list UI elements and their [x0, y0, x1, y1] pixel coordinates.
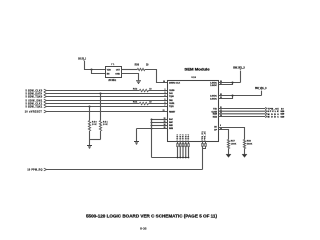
svg-text:5 SDW_DM1: 5 SDW_DM1	[26, 100, 43, 102]
svg-text:5DD4: 5DD4	[187, 134, 190, 140]
svg-text:5 SDW_TQK0: 5 SDW_TQK0	[26, 96, 43, 98]
wire MOD0	[219, 113, 285, 116]
svg-text:PPM_AK: PPM_AK	[204, 131, 207, 141]
ground pins bus (4 pins)	[137, 119, 168, 158]
bottom inside rotated pin labels	[177, 131, 206, 141]
svg-text:U20: U20	[191, 77, 196, 79]
bus line 5 SDW_CLK1	[26, 102, 168, 105]
ground (SM pins)	[134, 129, 139, 145]
bus line 4 SDW_DM	[26, 99, 168, 102]
svg-text:BW_VDL_3: BW_VDL_3	[233, 67, 245, 70]
svg-text:16: 16	[163, 81, 165, 83]
wire SPCLK	[219, 110, 285, 113]
svg-text:3: 3	[165, 92, 166, 94]
svg-text:10K: 10K	[103, 124, 108, 126]
svg-text:3.3VDC: 3.3VDC	[210, 95, 217, 97]
svg-text:RESET: RESET	[169, 111, 176, 113]
svg-text:5DD2: 5DD2	[183, 134, 185, 140]
svg-text:SEM Module: SEM Module	[184, 67, 209, 71]
wire 3.3VDC pair	[219, 91, 262, 99]
svg-text:MOD0: MOD0	[268, 114, 280, 116]
svg-text:20 MHz: 20 MHz	[108, 80, 117, 82]
wire EN branch	[92, 70, 106, 74]
svg-text:10: 10	[281, 108, 284, 110]
svg-text:9: 9	[220, 125, 221, 127]
pin numbers right column	[220, 81, 222, 130]
svg-text:5MD: 5MD	[169, 125, 174, 127]
inside labels left column	[169, 83, 181, 131]
ground (oscillator)	[122, 74, 142, 84]
svg-text:R56: R56	[135, 65, 140, 67]
svg-text:T5D: T5D	[213, 108, 218, 110]
pin numbers left column	[164, 89, 166, 129]
svg-text:8-10: 8-10	[281, 116, 285, 118]
svg-text:MOD1: MOD1	[268, 117, 280, 119]
svg-text:6: 6	[165, 102, 166, 104]
svg-text:5 SDW_CLK1: 5 SDW_CLK1	[26, 103, 43, 105]
svg-text:3.3VDC: 3.3VDC	[210, 98, 217, 100]
net BW_VDL_3 (right upper)	[233, 67, 245, 71]
svg-text:20MHz CLK: 20MHz CLK	[169, 83, 181, 85]
net BW_VDL_3 (top left)	[78, 56, 86, 61]
svg-text:5 SDW_TQK1: 5 SDW_TQK1	[26, 106, 43, 108]
svg-text:CLK51: CLK51	[169, 103, 175, 105]
wire join	[90, 139, 101, 141]
net BW_VDL_3 (right lower)	[255, 87, 267, 91]
svg-text:5DD1: 5DD1	[180, 134, 182, 140]
resistor R57	[219, 130, 237, 155]
bus line 3 SDW_TQ0	[26, 95, 168, 98]
SEM module box U20	[168, 67, 219, 141]
ground arrow (R58)	[242, 154, 247, 157]
svg-text:5AC: 5AC	[169, 118, 174, 121]
svg-text:VDD: VDD	[107, 70, 112, 72]
node junction	[90, 68, 92, 70]
svg-text:8-36: 8-36	[140, 227, 147, 231]
oscillator Y1	[106, 64, 122, 82]
resistor R50 pulldown	[88, 105, 97, 139]
svg-text:5 SDW_DATA: 5 SDW_DATA	[26, 92, 43, 95]
svg-text:560K: 560K	[247, 143, 253, 145]
wire TPM_OS	[219, 107, 284, 110]
svg-text:5ME: 5ME	[169, 128, 174, 130]
svg-text:TPM_O5: TPM_O5	[268, 109, 280, 111]
resistor R51 pulldown	[99, 92, 108, 139]
resistor R54 labels	[133, 100, 152, 103]
svg-text:5: 5	[165, 99, 166, 101]
svg-text:5500-120 LOGIC BOARD VER C SCH: 5500-120 LOGIC BOARD VER C SCHEMATIC (PA…	[86, 214, 218, 219]
svg-text:BW_VDL_3: BW_VDL_3	[78, 56, 86, 60]
wire PPM_RQ	[27, 168, 202, 171]
svg-text:5DD0: 5DD0	[177, 134, 179, 140]
wire VDD feed	[85, 61, 106, 70]
ground arrow (R57)	[226, 154, 231, 157]
svg-text:1.8VDC: 1.8VDC	[210, 85, 217, 87]
ground (pulldowns)	[87, 140, 92, 149]
svg-text:5DD3: 5DD3	[185, 134, 187, 140]
svg-text:10 PPM_RQ: 10 PPM_RQ	[27, 169, 42, 171]
bottom right series resistors (2)	[202, 142, 207, 149]
uVRESET line	[25, 110, 168, 114]
inside labels right column	[210, 82, 218, 131]
resistor R56	[122, 65, 168, 83]
bus line 1 SDW_CLK0	[26, 89, 168, 92]
ground run under box	[152, 157, 189, 159]
svg-text:GND: GND	[115, 74, 120, 76]
resistor R58	[219, 128, 253, 155]
svg-text:8-10: 8-10	[281, 114, 285, 116]
svg-text:2: 2	[165, 89, 166, 91]
svg-text:5 SDW_CLK0: 5 SDW_CLK0	[26, 90, 43, 92]
wire 1.8VDC pair	[219, 71, 241, 85]
svg-text:100K: 100K	[231, 143, 237, 145]
bus line 6 SDW_TQ1	[26, 105, 168, 108]
svg-text:5MC: 5MC	[169, 122, 174, 124]
bus line 2 SDW_DA	[26, 92, 168, 95]
wire MOD1	[219, 115, 285, 118]
svg-text:10K: 10K	[92, 124, 97, 126]
svg-text:7: 7	[165, 105, 166, 107]
resistor R52 labels	[133, 88, 152, 90]
svg-text:BW_VDL_3: BW_VDL_3	[255, 87, 267, 90]
svg-text:CLK50: CLK50	[169, 90, 175, 92]
bottom series resistor pack (5)	[177, 142, 190, 159]
svg-text:10 uVRESET: 10 uVRESET	[25, 112, 43, 114]
svg-text:21: 21	[163, 110, 165, 112]
